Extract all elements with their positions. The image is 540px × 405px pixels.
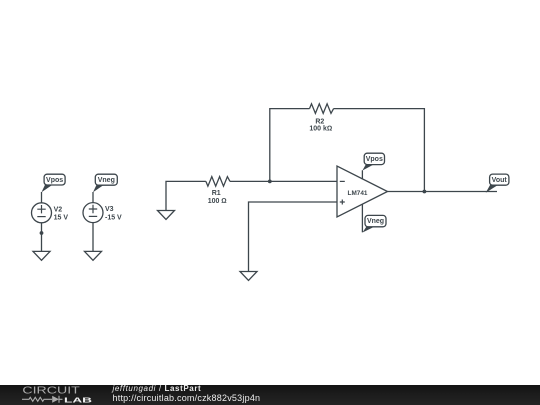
svg-text:Vneg: Vneg — [98, 177, 115, 184]
svg-text:R1: R1 — [212, 190, 221, 197]
svg-text:100 Ω: 100 Ω — [208, 198, 227, 205]
svg-text:15 V: 15 V — [54, 215, 69, 222]
svg-text:LAB: LAB — [64, 395, 93, 404]
svg-text:V2: V2 — [54, 206, 63, 213]
svg-text:Vpos: Vpos — [366, 156, 383, 163]
svg-text:Vneg: Vneg — [367, 218, 384, 225]
svg-text:100 kΩ: 100 kΩ — [309, 126, 332, 133]
svg-text:Vout: Vout — [492, 177, 508, 184]
svg-text:V3: V3 — [105, 206, 114, 213]
svg-text:Vpos: Vpos — [46, 177, 63, 184]
svg-text:-15 V: -15 V — [105, 214, 122, 221]
svg-text:LM741: LM741 — [348, 190, 368, 197]
